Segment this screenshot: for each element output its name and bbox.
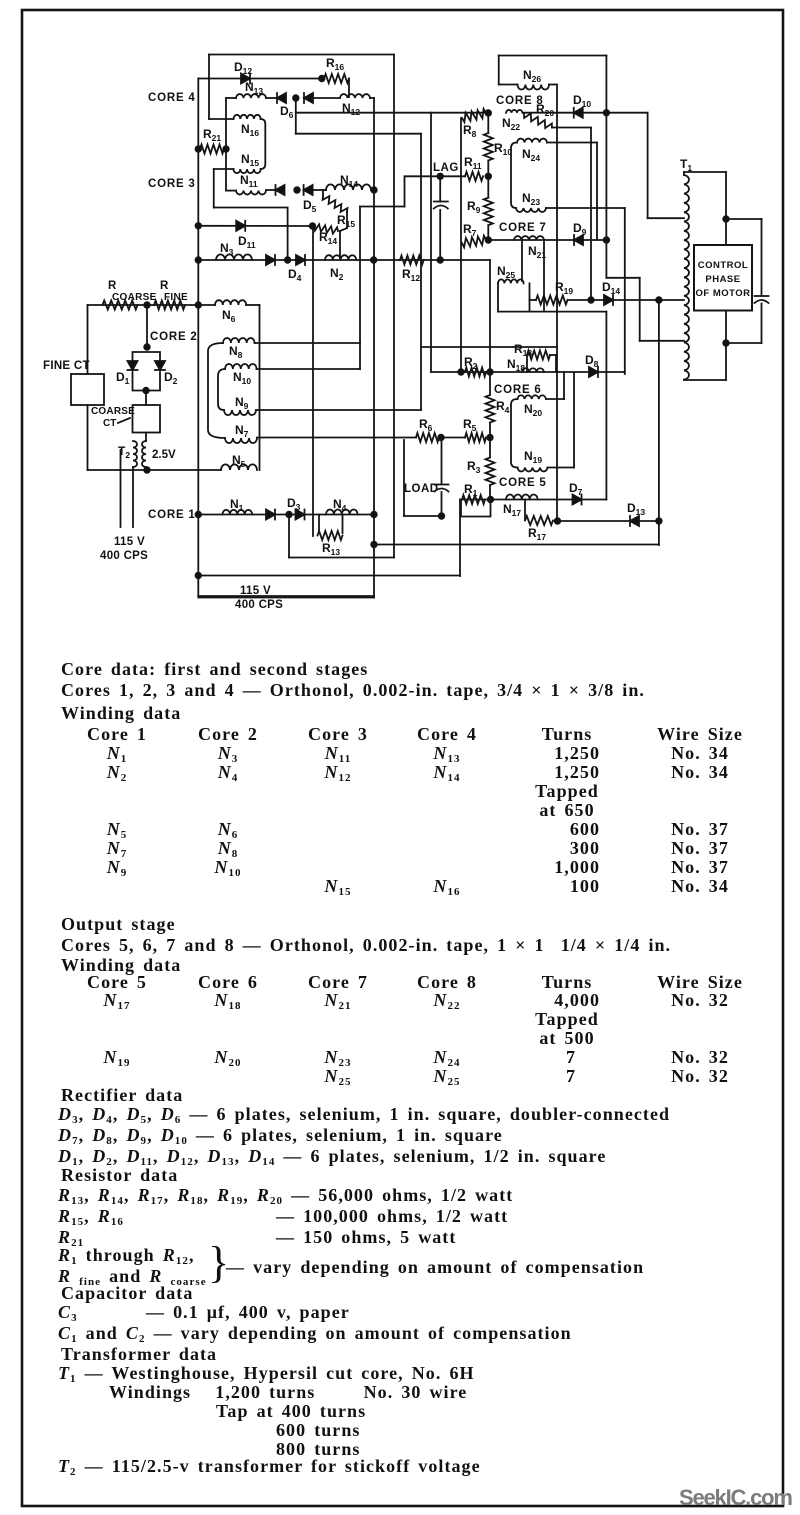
svg-text:R4: R4 [496,399,510,415]
wire coarse ct to coil [145,433,147,442]
SeekIC.com watermark [679,1485,792,1511]
wire N26 stub l [499,84,518,86]
wire N21 left drop [521,240,523,281]
winding N22 [506,110,523,113]
node control/left-v junction [196,302,202,308]
svg-text:D3: D3 [287,496,301,512]
resistor R20 [524,113,552,128]
wire bridge box [133,352,161,361]
svg-text:R16: R16 [326,56,344,72]
resistor R16 [324,74,349,83]
wire R13 left stub [318,515,320,534]
winding N10 [225,364,257,369]
resistor R15 [323,196,348,212]
svg-text:D8: D8 [585,353,599,369]
rectifier D3a [266,510,275,520]
wire D6 to N12 [313,97,340,99]
wire v490 a [489,260,491,395]
wire N11 to D5 [266,189,276,191]
svg-text:N25: N25 [497,264,515,280]
wire C1 top lead [439,176,441,201]
resistor R9 [484,198,493,226]
node R2 right [487,369,493,375]
svg-text:N14: N14 [340,173,358,189]
wire h597 bottom [198,597,374,599]
winding N4 [326,510,358,515]
node N2 right [371,257,377,263]
wire core8 jog h [606,277,639,279]
node D4 junction [285,257,291,263]
rectifier D10 [574,108,583,118]
wire R15 elbow [340,228,347,231]
wire cap branch top [726,218,762,220]
wire N11 stub [226,190,236,192]
wire N12 right [370,97,374,99]
svg-text:CORE 2: CORE 2 [150,331,198,343]
svg-text:N7: N7 [235,423,249,439]
wire R19 to D14 [568,299,606,301]
rectifier D8 [589,367,598,377]
node motor bottom tap [723,340,729,346]
node T2 bottom junction [144,467,150,473]
svg-text:CORE 6: CORE 6 [494,384,542,396]
resistor R5 [465,433,486,442]
wire N15 to D4 riser v [287,208,289,261]
wire N20-N19 left loop [511,399,518,468]
svg-text:N3: N3 [220,241,234,257]
svg-text:D4: D4 [288,267,302,283]
resistor R19 [536,296,568,305]
wire D12 line [198,78,324,80]
svg-text:R20: R20 [536,102,554,118]
wire coarse ct arrow [118,418,130,423]
rectifier D6a [277,93,286,103]
wire N6 right drop [259,305,261,470]
wire N6 elbow [246,304,260,306]
wire N23 right [546,207,625,209]
wire R14 tap [339,231,341,258]
svg-text:N2: N2 [330,266,344,282]
svg-text:D7: D7 [569,481,583,497]
svg-text:CORE 5: CORE 5 [499,477,547,489]
resistor R17 [525,516,553,525]
winding N13 [236,94,266,98]
motor box [694,245,752,311]
wire bridge to coarse ct [145,391,147,406]
resistor R13 [318,531,343,540]
winding N14 [326,184,371,190]
node bridge bottom [143,388,149,394]
wire motor bottom [725,311,727,381]
svg-text:R2: R2 [464,355,478,371]
rectifier D13 [630,516,639,526]
winding N21 [514,236,544,240]
svg-text:R12: R12 [402,267,420,283]
wire core7 line [488,239,606,241]
svg-text:D6: D6 [280,104,294,120]
winding N5 [221,464,257,470]
wire R18 right drop [555,355,557,372]
node D10 junction [604,110,610,116]
node LAG [437,174,443,180]
resistor R3 [486,458,495,486]
wire left drop from top bus [208,55,210,120]
svg-text:D13: D13 [627,501,645,517]
wire N10-N9 left loop [218,369,225,410]
rectifier D1 [128,361,138,370]
svg-text:N18: N18 [507,357,525,373]
rectifier D11 [236,221,245,231]
svg-text:N26: N26 [523,68,541,84]
wire T2 lead b [132,467,134,527]
winding N8 [223,338,255,343]
wire R18 left stub [526,355,528,372]
wire riser to D3 junction [288,515,290,558]
resistor Rcoarse [103,301,138,310]
wire N8 line [255,342,361,344]
node core1 left [196,512,202,518]
svg-text:FINE CT: FINE CT [43,360,90,372]
wire cap branch v2 [761,304,763,344]
node R21 left [196,146,202,152]
winding N23 [516,208,546,212]
wire T2 lead a [120,450,122,527]
svg-text:N6: N6 [222,308,236,324]
rectifier D3a-row260 [266,255,275,265]
wire R15 drop [346,212,348,228]
wire N10 line [257,368,361,370]
wire v624 [624,208,626,374]
node R2 left [458,369,464,375]
wire v658 [658,300,660,545]
wire v461 upper [460,118,462,372]
resistor Rfine [154,301,185,310]
transformer T2 primary [133,441,137,467]
wire D10 line [523,112,648,114]
svg-text:R1: R1 [464,482,478,498]
wire v490 b [489,423,491,458]
rectifier D9 [574,235,583,245]
svg-text:N8: N8 [229,344,243,360]
wire N7-R6 line [257,437,416,439]
svg-text:N16: N16 [241,122,259,138]
wire tap3 to T1 [640,340,684,342]
wire N21 right drop [543,240,545,312]
wire v606 lower [605,312,607,500]
wire h133 bus [296,133,421,135]
wire LOAD bottom lead [441,492,443,516]
svg-text:D9: D9 [573,221,587,237]
svg-text:N22: N22 [502,116,520,132]
svg-text:D10: D10 [573,93,591,109]
wire core3 output line [198,259,490,261]
svg-text:PHASE: PHASE [705,274,740,285]
wire N19 right [548,467,575,469]
svg-text:R21: R21 [203,127,221,143]
node R8 top [486,110,492,116]
winding N2 [325,255,356,260]
node Rc/Rf junction [144,302,150,308]
wire D14 right [613,299,684,301]
wire bottom of big loop [289,557,394,559]
node R1 right [488,497,494,503]
resistor R18 [527,351,550,360]
wire v564 [563,372,565,399]
resistor R1 [462,495,485,504]
wire h112 bus [296,112,489,114]
wire v597 [596,143,598,241]
wire LOAD loop v [403,440,405,516]
rectifier D4b [296,255,305,265]
node motor top tap [723,216,729,222]
rectifier D5a [276,185,285,195]
svg-text:T1: T1 [680,157,692,173]
capacitor C3 motor [755,295,769,297]
node R19/D14 junction [588,297,594,303]
wire v490 c [489,485,491,500]
transformer COARSE CT box [133,405,161,433]
resistor R7 [462,236,486,248]
wire N16-N15 right loop [261,119,266,169]
svg-text:R8: R8 [463,123,477,139]
winding N12 [340,94,370,98]
wire v431 [430,113,432,372]
svg-text:R7: R7 [463,222,477,238]
node D11 left [196,223,202,229]
rectifier D14 [604,295,613,305]
svg-text:400 CPS: 400 CPS [235,599,283,611]
wire D11 line [198,225,312,227]
resistor R2 [465,368,486,377]
wire long h575 [198,575,460,577]
svg-text:400 CPS: 400 CPS [100,550,148,562]
wire N24 right [547,142,597,144]
node D3 junction [286,512,292,518]
svg-text:115 V: 115 V [240,585,271,597]
svg-text:CT: CT [103,418,116,429]
winding N9 [224,410,256,415]
wire ladder v488 b [487,161,489,198]
wire N15 left [214,168,234,170]
winding N11 [236,191,266,195]
rectifier D7 [573,495,582,505]
wire N25 left drop [497,283,499,311]
wire motor top feed [725,172,727,245]
wire N25 loop bottom [498,311,606,313]
wire control line [88,304,216,306]
winding N26 [518,85,550,90]
wire N26 stub r [549,84,557,86]
svg-text:115 V: 115 V [114,536,145,548]
svg-text:N15: N15 [241,152,259,168]
wire N13 to D6 [266,97,277,99]
svg-text:R6: R6 [419,417,433,433]
svg-text:R: R [108,280,117,292]
wire v591 [590,128,592,301]
node y260 left [196,257,202,263]
rectifier D3b [296,510,305,520]
wire core8 box left [498,56,500,85]
wire N20 right [546,398,564,400]
wire R16 to N12 [348,79,350,98]
wire T1 bottom [684,379,726,381]
winding N18 [522,368,544,372]
svg-text:N13: N13 [245,80,263,96]
svg-text:CORE 1: CORE 1 [148,509,196,521]
wire 2.5v to bottom [145,467,147,470]
node ladder mid [486,174,492,180]
resistor R14 [314,224,338,233]
winding N24 [517,139,547,143]
wire N15 drop [213,169,215,208]
svg-text:COARSE: COARSE [91,406,135,417]
wire bottom control line [88,469,222,471]
svg-text:LAG: LAG [433,162,459,174]
wire h347 [421,346,557,348]
svg-text:D12: D12 [234,60,252,76]
wire core8 jog v [639,278,641,341]
svg-text:D11: D11 [238,234,256,250]
svg-text:N20: N20 [524,402,542,418]
wire bridge top stub [146,305,148,349]
node R21 right [223,146,229,152]
winding N17 [506,495,538,500]
wire core6 line [431,371,589,373]
svg-text:N19: N19 [524,449,542,465]
wire long h544 [374,544,659,546]
wire v557 long [556,85,558,522]
wire bridge box bottom [133,372,161,391]
wire v360 [359,207,361,370]
node R12 right [437,257,443,263]
svg-text:D2: D2 [164,370,178,386]
wire to T1 top tap [648,217,684,219]
resistor R11 [465,172,483,181]
wire right drop of top bus [393,55,395,558]
wire to N16 [209,118,234,120]
svg-text:N23: N23 [522,191,540,207]
winding N7 [225,438,257,443]
svg-text:R17: R17 [528,526,546,542]
svg-text:N12: N12 [342,101,360,117]
wire R13 right stub [342,515,344,534]
svg-text:N11: N11 [240,173,258,189]
svg-text:D1: D1 [116,370,130,386]
svg-text:R18: R18 [514,342,532,358]
svg-text:R10: R10 [494,141,512,157]
svg-text:N4: N4 [333,497,347,513]
wire D8 right [598,371,625,373]
wire R6 to R5 [441,437,465,439]
svg-text:OF MOTOR: OF MOTOR [695,288,750,299]
wire v574 [573,373,575,468]
wire cap branch v1 [761,219,763,295]
svg-text:N24: N24 [522,147,540,163]
rectifier D6b [304,93,313,103]
resistor R10 [484,133,493,161]
wire N24-N23 left loop [511,143,517,209]
svg-text:CORE 7: CORE 7 [499,222,547,234]
transformer T2 secondary 2.5V [142,441,146,467]
node R17/D13 junction [555,518,561,524]
wire fine ct bottom [87,405,89,470]
svg-text:R19: R19 [555,280,573,296]
node bridge top [144,344,150,350]
node N14 right [371,187,377,193]
node R6 right [438,435,444,441]
wire top bus [209,54,394,56]
wire ladder v488 a [487,113,489,133]
node junction D12/R16 [319,76,325,82]
wire LOAD top lead [441,438,443,485]
wire ladder v488 c [487,225,489,240]
winding N20 [518,395,546,399]
wire N25 right drop [529,283,531,311]
wire R20 to v591 [552,127,591,129]
rectifier D5b [304,185,313,195]
winding N16 [234,115,261,119]
wire LOAD loop h [404,515,442,517]
node R5 right [487,435,493,441]
winding N15 [234,169,261,173]
svg-text:N10: N10 [233,370,251,386]
wire LAG feeder h [360,206,405,208]
capacitor C1 [434,201,448,203]
wire R17 stub [524,500,526,520]
wire D13 line [558,520,659,522]
node R7 right [486,237,492,243]
svg-text:2.5V: 2.5V [152,449,176,461]
svg-text:R9: R9 [467,199,481,215]
svg-text:CONTROL: CONTROL [698,260,748,271]
svg-text:N17: N17 [503,502,521,518]
transformer T1 winding [684,175,689,380]
resistor R4 [486,395,495,423]
wire core1 line [198,514,374,516]
node D14 right junction [656,297,662,303]
svg-text:R: R [160,280,169,292]
wire R19 left [530,299,537,301]
resistor R8 [462,109,486,122]
wire LAG feeder v405 [404,176,406,206]
capacitor C2 LOAD [435,484,449,486]
rectifier D2 [155,361,165,370]
wire T1 top v [683,172,685,175]
wire R1 left drop [459,500,461,577]
svg-text:R3: R3 [467,459,481,475]
node h575 left [196,573,202,579]
wire R15 stub [322,190,324,196]
node D9 junction [604,237,610,243]
wire core8 box right [605,56,607,278]
wire N15 to D4 riser h [214,207,288,209]
svg-text:R13: R13 [322,541,340,557]
winding N1 [223,510,253,515]
node D6 junction [293,95,299,101]
svg-text:LOAD: LOAD [404,483,439,495]
svg-text:N9: N9 [235,395,249,411]
node LOAD bottom [439,513,445,519]
resistor R6 [416,433,439,442]
wire cap branch bottom [726,342,762,344]
transformer FINE CT box [71,374,104,405]
wire N9 line [256,409,421,411]
wire R1 under loop [461,500,491,517]
wire N8-N7 left loop [208,343,225,438]
wire D10 to T1 drop [647,113,649,219]
node D13 right [656,518,662,524]
winding N3 [216,254,252,260]
